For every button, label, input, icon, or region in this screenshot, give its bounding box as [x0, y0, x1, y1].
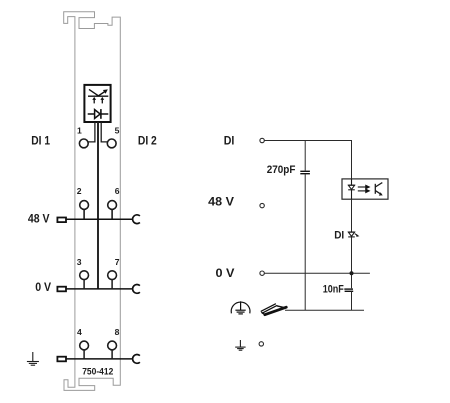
terminal 1 [79, 139, 88, 148]
0V socket contact [133, 285, 140, 294]
svg-text:48 V: 48 V [208, 197, 234, 209]
junction dot [350, 271, 354, 275]
terminal 4 [80, 341, 89, 350]
0V row wire [67, 288, 133, 290]
earth symbol small [235, 340, 245, 350]
svg-text:4: 4 [77, 327, 82, 337]
optocoupler U2 box [342, 179, 388, 199]
svg-text:DI: DI [334, 229, 344, 241]
svg-text:0 V: 0 V [35, 282, 51, 294]
opto phototransistor [375, 183, 382, 195]
LED DI indicator [348, 232, 355, 237]
270pF branch wire [304, 141, 306, 171]
svg-text:6: 6 [115, 186, 120, 196]
svg-text:DI: DI [224, 135, 235, 147]
wire box to terminal 1 [88, 122, 95, 142]
LED up arrow right [100, 97, 104, 104]
svg-text:48 V: 48 V [28, 214, 50, 226]
wire 10nF to rail [351, 291, 353, 310]
48V row wire [67, 218, 133, 220]
svg-text:270pF: 270pF [267, 164, 296, 176]
module outline (WAGO 750 side profile) [64, 12, 121, 391]
capacitor 270pF [300, 170, 310, 172]
earth plug [57, 357, 66, 362]
earth socket contact [133, 355, 140, 364]
terminal 8 [108, 341, 117, 350]
terminal 7 [108, 271, 117, 280]
svg-text:750-412: 750-412 [82, 366, 113, 376]
terminal 2 [80, 201, 89, 210]
svg-text:7: 7 [115, 257, 120, 267]
svg-text:10nF: 10nF [323, 283, 344, 295]
wire LED to 0V junction [351, 237, 353, 288]
LED emission arrow [356, 234, 359, 237]
functional earth symbol [231, 301, 250, 314]
ground symbol (module bottom left) [27, 352, 39, 365]
earth row wire [67, 358, 133, 360]
capacitor 10nF [344, 288, 353, 290]
0V plug [57, 287, 66, 292]
DI terminal [260, 138, 264, 142]
svg-text:5: 5 [115, 125, 120, 135]
status LED symbol (top of box) [88, 89, 108, 96]
svg-text:DI 2: DI 2 [138, 136, 157, 148]
wire box to terminal 5 [101, 122, 107, 142]
DIN rail symbol [261, 304, 286, 315]
LED up arrow left [92, 97, 96, 104]
48V terminal [260, 203, 264, 207]
svg-text:DI 1: DI 1 [31, 135, 50, 147]
LED box U1 [84, 85, 110, 122]
DI wire [265, 141, 352, 179]
0V terminal [260, 271, 264, 275]
svg-text:2: 2 [77, 186, 82, 196]
svg-text:3: 3 [77, 257, 82, 267]
48V plug [57, 218, 66, 223]
opto LED [348, 179, 355, 199]
terminal 5 [107, 139, 116, 148]
48V socket contact [133, 215, 140, 224]
diag arrowhead [103, 89, 108, 93]
wire opto to LED DI [351, 199, 353, 232]
terminal 6 [108, 201, 117, 210]
svg-text:8: 8 [115, 327, 120, 337]
svg-text:0 V: 0 V [216, 268, 235, 280]
opto light arrows [358, 185, 369, 192]
center bus wire [97, 122, 99, 289]
0V wire [265, 272, 370, 274]
diode D1 (bottom of box) [88, 109, 109, 119]
terminal 3 [80, 271, 89, 280]
svg-text:1: 1 [77, 125, 82, 135]
earth terminal circle [259, 342, 263, 346]
DIN rail line [285, 309, 364, 311]
